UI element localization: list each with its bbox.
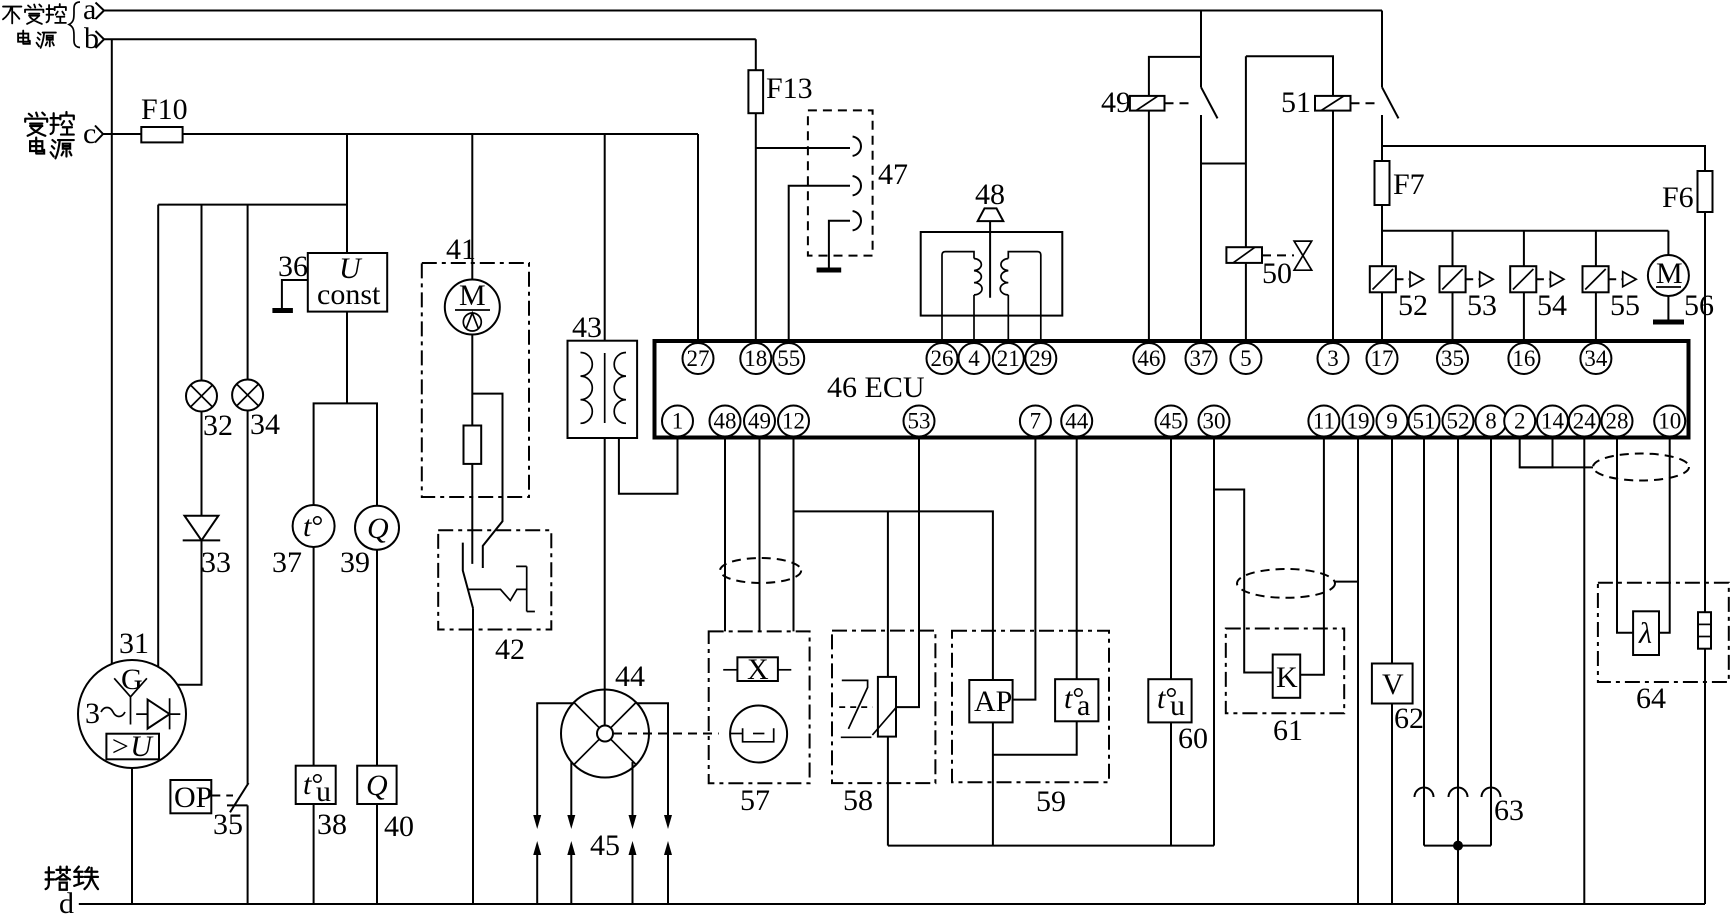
svg-text:9: 9 xyxy=(1386,409,1398,434)
wire: pin 53 to 58 wiper xyxy=(896,438,919,708)
svg-text:F13: F13 xyxy=(766,72,813,105)
wire: pin 19 to ground xyxy=(1357,438,1359,905)
svg-text:OP: OP xyxy=(174,781,212,814)
svg-text:52: 52 xyxy=(1398,289,1428,322)
wires: distributor outputs xyxy=(537,703,573,815)
wire: pin 30 sensor ground xyxy=(1213,438,1215,846)
resistor in 41 xyxy=(464,426,482,464)
svg-text:55: 55 xyxy=(1610,289,1640,322)
pin 26 xyxy=(927,343,958,374)
box 41 (idle air device) xyxy=(422,263,529,497)
pin 29 xyxy=(1025,343,1056,374)
svg-text:45: 45 xyxy=(1160,409,1183,434)
svg-text:Q: Q xyxy=(367,512,389,545)
brace for terminals a b xyxy=(69,2,80,48)
wire: injector 52 to pin 17 xyxy=(1381,292,1383,341)
fuse F6 xyxy=(1698,171,1713,212)
svg-text:d: d xyxy=(59,887,74,915)
svg-text:51: 51 xyxy=(1413,409,1436,434)
svg-text:18: 18 xyxy=(744,346,767,371)
pin 4 xyxy=(959,343,990,374)
sensor 58 (throttle potentiometer) xyxy=(832,631,935,817)
svg-text:b: b xyxy=(84,22,99,55)
wire: pin 11 to K 61 xyxy=(1300,438,1324,675)
svg-text:39: 39 xyxy=(340,546,370,579)
pin 9 xyxy=(1377,406,1408,437)
svg-text:50: 50 xyxy=(1262,257,1292,290)
svg-text:37: 37 xyxy=(272,546,302,579)
svg-text:40: 40 xyxy=(384,810,414,843)
svg-text:36: 36 xyxy=(278,250,308,283)
wires: pins 51 52 8 to connector 63 xyxy=(1423,438,1425,789)
diode 33 xyxy=(183,516,231,579)
pin 51 xyxy=(1409,406,1440,437)
wire: 58 to sensor ground rail xyxy=(887,737,889,846)
pin 12 xyxy=(778,406,809,437)
pin 48 xyxy=(710,406,741,437)
switch arm in 42 xyxy=(463,543,473,609)
sensor ground rail xyxy=(888,845,1214,847)
wire: pin 45 to t u 60 xyxy=(1170,438,1172,680)
svg-text:28: 28 xyxy=(1606,409,1629,434)
svg-text:49: 49 xyxy=(1101,86,1131,119)
motor M 41 xyxy=(445,279,500,335)
svg-text:λ: λ xyxy=(1638,617,1652,650)
distributor 44 xyxy=(561,660,649,778)
pin 17 xyxy=(1367,343,1398,374)
svg-text:12: 12 xyxy=(782,409,805,434)
pin 34 xyxy=(1580,343,1611,374)
pin 18 xyxy=(740,343,771,374)
svg-text:54: 54 xyxy=(1537,289,1567,322)
sensor 60 (t u) xyxy=(1148,679,1208,755)
ground line d (da tie) xyxy=(46,867,98,890)
svg-text:M: M xyxy=(1656,257,1683,290)
wire: switch 49 out to valve 50 and relay 51 coil xyxy=(1201,163,1246,165)
wire: pin 10 to lambda xyxy=(1659,438,1670,633)
pin 27 xyxy=(683,343,714,374)
wire: injector supply rail xyxy=(1382,230,1668,232)
pin 21 xyxy=(993,343,1024,374)
pin 10 xyxy=(1654,406,1685,437)
knock sensor 61 xyxy=(1226,629,1344,748)
sensor 37 (t deg) xyxy=(272,505,335,579)
pin 16 xyxy=(1508,343,1539,374)
wire: lamp 32 drop xyxy=(201,205,203,381)
fuse F7 xyxy=(1375,161,1390,205)
svg-text:14: 14 xyxy=(1541,409,1565,434)
pin 30 xyxy=(1199,406,1230,437)
wire: pin 28 to lambda xyxy=(1617,438,1633,633)
wire: AP ground to rail xyxy=(992,722,994,845)
svg-text:41: 41 xyxy=(446,233,476,266)
svg-text:35: 35 xyxy=(213,808,243,841)
wire: injector 54 to pin 16 xyxy=(1523,292,1525,341)
svg-text:47: 47 xyxy=(878,158,908,191)
svg-text:17: 17 xyxy=(1371,346,1394,371)
lamp 34 xyxy=(232,380,280,442)
trapezoid spark symbol wires done; ECU box 46 xyxy=(655,341,1689,438)
pin 2 xyxy=(1504,406,1535,437)
sensor unit 59 (AP and t a) xyxy=(952,631,1109,818)
wire: pin 30 branch to K 61 xyxy=(1214,490,1273,673)
wire: switched rail to F6 xyxy=(1382,146,1705,612)
svg-text:60: 60 xyxy=(1178,722,1208,755)
connector 47 xyxy=(808,110,908,255)
svg-text:63: 63 xyxy=(1494,794,1524,827)
svg-text:34: 34 xyxy=(250,408,280,441)
wire: heater to ground xyxy=(1704,649,1706,904)
svg-text:1: 1 xyxy=(672,409,684,434)
dashed link 44 to 57 xyxy=(613,733,719,735)
junction node 63 xyxy=(1453,841,1463,851)
pin 55 xyxy=(773,343,804,374)
wire: coil 49 to pin 46 xyxy=(1148,111,1150,341)
pin 5 xyxy=(1230,343,1261,374)
switch 35 xyxy=(227,783,249,904)
wire: 47 to pin 55 xyxy=(789,186,850,341)
svg-text:10: 10 xyxy=(1658,409,1681,434)
wire: injector 53 to pin 35 xyxy=(1452,292,1454,341)
wire: rail drop to 58 resistor xyxy=(887,511,889,677)
svg-text:16: 16 xyxy=(1512,346,1535,371)
wire: diode 33 to generator xyxy=(177,540,201,684)
svg-text:19: 19 xyxy=(1347,409,1370,434)
wire: lamp feed rail xyxy=(158,134,347,205)
pin 45 xyxy=(1156,406,1187,437)
svg-text:43: 43 xyxy=(572,311,602,344)
wire: b to F13 xyxy=(755,39,757,341)
pin 28 xyxy=(1602,406,1633,437)
sender 40 (Q) xyxy=(357,766,414,843)
generator 31 xyxy=(78,627,186,768)
svg-text:37: 37 xyxy=(1190,346,1213,371)
sender 38 (t u) xyxy=(296,766,347,841)
wire: pin 9 through V 62 to ground xyxy=(1391,438,1393,664)
injector 53 xyxy=(1440,266,1498,322)
wire: coil 49 top to line a xyxy=(1149,57,1201,96)
sensor 39 (Q) xyxy=(340,506,399,579)
svg-text:35: 35 xyxy=(1441,346,1464,371)
injector 52 xyxy=(1370,266,1428,322)
svg-text:32: 32 xyxy=(203,409,233,442)
svg-text:2: 2 xyxy=(1514,409,1526,434)
shield ellipse at 57 xyxy=(720,558,801,583)
wire: line b xyxy=(104,38,756,40)
injector 54 xyxy=(1510,266,1567,322)
wire: line c xyxy=(103,133,698,135)
ECU pins top row xyxy=(683,343,1612,374)
svg-text:29: 29 xyxy=(1029,346,1052,371)
svg-text:V: V xyxy=(1382,668,1404,701)
label 受控电源 (controlled supply) xyxy=(25,112,74,158)
svg-text:F10: F10 xyxy=(141,93,188,126)
wires: pins 2 and 14 shield drain of 64 xyxy=(1520,438,1553,468)
svg-text:21: 21 xyxy=(997,346,1020,371)
svg-text:8: 8 xyxy=(1485,409,1497,434)
svg-text:62: 62 xyxy=(1394,702,1424,735)
pin 53 xyxy=(904,406,935,437)
svg-text:const: const xyxy=(317,278,381,311)
svg-text:59: 59 xyxy=(1036,785,1066,818)
wire: 47 third to ground xyxy=(829,221,850,268)
pin 11 xyxy=(1308,406,1339,437)
pin 19 xyxy=(1343,406,1374,437)
shield ellipse at 64 xyxy=(1593,454,1689,481)
wire: valve 50 to pin 5 xyxy=(1245,263,1247,341)
label 不受控电源 (uncontrolled supply) xyxy=(3,4,66,48)
svg-text:44: 44 xyxy=(615,660,645,693)
svg-text:4: 4 xyxy=(968,346,980,371)
svg-text:64: 64 xyxy=(1636,682,1666,715)
ignition coil 43 xyxy=(568,311,638,438)
svg-text:t°: t° xyxy=(303,510,323,543)
pin 44 xyxy=(1061,406,1092,437)
ECU pins bottom row xyxy=(662,406,1685,437)
heater resistor in 64 xyxy=(1698,612,1711,649)
switch 49 xyxy=(1201,11,1218,342)
voltage regulator 36 (U const) xyxy=(278,250,387,312)
svg-text:44: 44 xyxy=(1065,409,1089,434)
wire: 5V rail from pin 12 to sensors xyxy=(794,511,993,680)
pin 1 xyxy=(662,406,693,437)
wire: pin 44 to t a xyxy=(1076,438,1078,680)
svg-text:F6: F6 xyxy=(1662,181,1694,214)
svg-text:61: 61 xyxy=(1273,714,1303,747)
svg-text:Q: Q xyxy=(366,769,388,802)
wire: 39 to 40 xyxy=(376,550,378,766)
svg-text:51: 51 xyxy=(1281,86,1311,119)
wire: 37 to 38 xyxy=(313,547,315,766)
svg-text:31: 31 xyxy=(119,627,149,660)
svg-text:K: K xyxy=(1276,661,1298,694)
wire: injector 55 to pin 34 xyxy=(1595,292,1597,341)
svg-text:30: 30 xyxy=(1203,409,1226,434)
wire: coil 51 to pin 3 xyxy=(1332,111,1334,341)
wire and ground at 56 xyxy=(1667,296,1669,320)
shield drain 61 to pin 19 wire xyxy=(1335,581,1358,583)
wire: pin 12 to module 57 xyxy=(793,438,795,632)
wire: lamp 32 to diode 33 xyxy=(201,412,203,516)
svg-text:F7: F7 xyxy=(1393,168,1425,201)
pin 46 xyxy=(1133,343,1164,374)
shield ellipse at 61 xyxy=(1237,569,1335,598)
valve coil 50 xyxy=(1226,241,1311,290)
lamp 32 xyxy=(186,381,233,443)
svg-text:53: 53 xyxy=(908,409,931,434)
wire: 60 to rail xyxy=(1170,722,1172,845)
wire: branch to 42 right contact xyxy=(472,394,502,568)
spark gaps 45 (arrows) xyxy=(533,815,672,904)
wire: pin 49 to module 57 xyxy=(759,438,761,632)
pin 35 xyxy=(1437,343,1468,374)
lambda sensor 64 xyxy=(1598,583,1729,715)
svg-text:58: 58 xyxy=(843,784,873,817)
svg-text:45: 45 xyxy=(590,829,620,862)
svg-text:52: 52 xyxy=(1447,409,1470,434)
wire: b feed to generator xyxy=(111,39,113,664)
connector 63 arcs xyxy=(1415,788,1525,828)
ignition coil pack 48 xyxy=(921,178,1063,341)
wire: resistor to 42 xyxy=(471,464,473,564)
svg-text:46 ECU: 46 ECU xyxy=(827,371,925,404)
wire: t a bottom joins AP ground xyxy=(993,721,1077,754)
pin 49 xyxy=(744,406,775,437)
pin 37 xyxy=(1186,343,1217,374)
svg-text:11: 11 xyxy=(1313,409,1335,434)
relay 49 coil xyxy=(1101,86,1193,119)
ground at 36 xyxy=(282,280,308,309)
svg-text:7: 7 xyxy=(1030,409,1042,434)
wire: line a xyxy=(104,10,1382,12)
wire: c to motor 41 xyxy=(471,134,473,280)
wire: 36 output xyxy=(346,312,348,404)
svg-text:55: 55 xyxy=(777,346,800,371)
svg-text:49: 49 xyxy=(748,409,771,434)
svg-text:42: 42 xyxy=(495,633,525,666)
fuse F10 xyxy=(141,127,182,142)
box 42 (thermo switch) xyxy=(438,530,551,629)
relay 51 coil xyxy=(1281,86,1376,119)
box OP (oil pressure) xyxy=(170,780,243,841)
wire: generator to ground xyxy=(131,768,133,904)
svg-text:33: 33 xyxy=(201,546,231,579)
wire: pin 7 to AP out xyxy=(1013,438,1036,700)
wire: 43 secondary to pin 1 xyxy=(619,438,678,494)
svg-text:46: 46 xyxy=(1137,346,1160,371)
pin 8 xyxy=(1476,406,1507,437)
motor 56 xyxy=(1648,255,1714,322)
svg-text:3: 3 xyxy=(85,697,100,730)
svg-text:c: c xyxy=(83,117,96,150)
wires below 63 xyxy=(1423,788,1425,846)
svg-text:48: 48 xyxy=(714,409,737,434)
svg-text:53: 53 xyxy=(1467,289,1497,322)
svg-text:26: 26 xyxy=(931,346,954,371)
svg-text:G: G xyxy=(121,663,143,696)
wire: c to coil 43 xyxy=(604,134,606,341)
pin 24 xyxy=(1569,406,1600,437)
svg-text:56: 56 xyxy=(1684,289,1714,322)
svg-text:a: a xyxy=(1077,689,1090,722)
meter V 62 xyxy=(1372,664,1424,736)
wire: 43 HT to distributor 44 xyxy=(604,438,606,726)
wire: pin 24 to ground xyxy=(1583,438,1585,905)
fuse F13 xyxy=(748,70,763,113)
svg-text:X: X xyxy=(747,653,769,686)
ground at 47 xyxy=(817,268,842,273)
pin 7 xyxy=(1020,406,1051,437)
svg-text:M: M xyxy=(459,279,486,312)
svg-text:AP: AP xyxy=(974,685,1012,718)
svg-text:34: 34 xyxy=(1584,346,1608,371)
wire: motor to resistor xyxy=(471,335,473,426)
wire: c to regulator 36 xyxy=(346,205,348,253)
wire: F13 line to connector 47 xyxy=(756,147,850,149)
bimetal in 42 xyxy=(469,566,535,611)
svg-text:u: u xyxy=(316,775,331,808)
svg-text:38: 38 xyxy=(317,808,347,841)
svg-text:>U: >U xyxy=(110,730,154,763)
wire: 38 to ground xyxy=(313,804,315,904)
svg-text:48: 48 xyxy=(975,178,1005,211)
module 57 (ignition module) xyxy=(709,631,810,817)
injector 55 xyxy=(1583,266,1641,322)
wire: pin 48 to module 57 xyxy=(724,438,726,632)
pin 52 xyxy=(1443,406,1474,437)
svg-text:57: 57 xyxy=(740,784,770,817)
pin 14 xyxy=(1537,406,1568,437)
wire: lamp 34 to switch 35 xyxy=(247,411,249,785)
svg-text:u: u xyxy=(1170,689,1185,722)
wire: lamp 34 drop xyxy=(247,205,249,380)
wire: line c corner to pin 27 xyxy=(697,134,699,341)
wire: 42 to ground xyxy=(472,608,474,904)
svg-text:3: 3 xyxy=(1327,346,1339,371)
wire: 40 to ground xyxy=(376,804,378,904)
svg-text:5: 5 xyxy=(1240,346,1252,371)
switch 51 xyxy=(1382,11,1399,342)
pin 3 xyxy=(1318,343,1349,374)
svg-text:24: 24 xyxy=(1573,409,1597,434)
svg-text:27: 27 xyxy=(687,346,710,371)
